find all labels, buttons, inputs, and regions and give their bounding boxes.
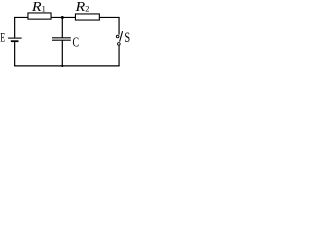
battery E short thick plate	[11, 40, 19, 42]
switch S blade	[120, 31, 123, 41]
background	[0, 0, 132, 71]
wire left upper (to battery)	[14, 17, 16, 37]
wire top	[14, 16, 120, 18]
svg-text:C: C	[73, 34, 80, 50]
label R2	[74, 0, 89, 15]
wire capacitor branch lower	[61, 40, 63, 66]
label R1	[31, 0, 46, 15]
wire left lower (battery to bottom corner)	[14, 42, 16, 66]
wire capacitor branch upper	[61, 17, 63, 37]
svg-text:S: S	[124, 29, 130, 45]
switch S upper contact	[116, 35, 119, 38]
svg-text:R: R	[31, 0, 42, 15]
capacitor C lower plate	[52, 39, 71, 41]
node junction top	[61, 16, 64, 19]
battery E long plate	[8, 37, 22, 39]
switch S lower contact	[118, 43, 121, 46]
resistor R1	[28, 13, 51, 19]
svg-text:R: R	[74, 0, 85, 15]
svg-text:E: E	[0, 32, 5, 45]
svg-text:1: 1	[42, 5, 46, 14]
resistor R2	[75, 14, 99, 20]
wire right lower (switch to bottom corner)	[118, 45, 120, 66]
wire right upper (to switch)	[118, 17, 120, 34]
wire bottom	[14, 65, 120, 67]
capacitor C upper plate	[52, 37, 71, 39]
svg-text:2: 2	[85, 5, 89, 14]
node junction bottom	[61, 65, 63, 67]
